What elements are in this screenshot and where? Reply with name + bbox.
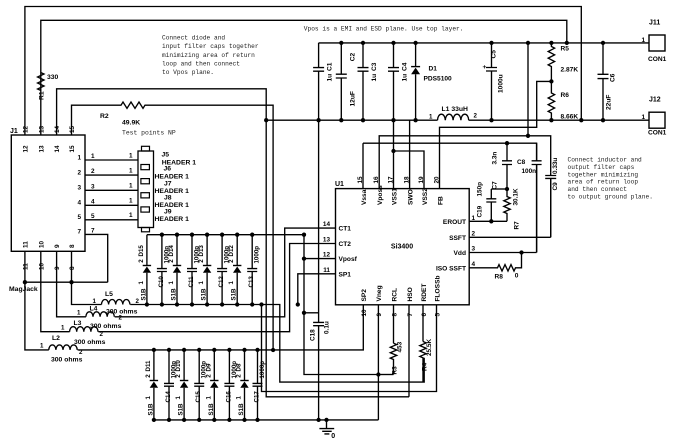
svg-text:CT1: CT1 <box>339 226 352 233</box>
svg-text:input filter caps together: input filter caps together <box>162 43 259 50</box>
wire Vssa riser <box>362 143 364 188</box>
svg-text:10: 10 <box>361 309 368 317</box>
svg-text:1: 1 <box>236 396 243 400</box>
capacitor C9 0.33u <box>545 173 556 237</box>
svg-text:1: 1 <box>175 396 182 400</box>
svg-text:Vposs: Vposs <box>377 185 384 205</box>
svg-text:HEADER 1: HEADER 1 <box>155 216 190 223</box>
capacitor C16 1000p <box>224 350 234 420</box>
svg-text:L4: L4 <box>90 305 98 312</box>
svg-text:1: 1 <box>145 396 152 400</box>
svg-text:J9: J9 <box>164 209 172 216</box>
resistor R5 2.87K <box>548 43 554 82</box>
svg-text:15: 15 <box>69 145 76 153</box>
svg-text:VSS2: VSS2 <box>422 188 429 205</box>
svg-text:7: 7 <box>407 313 414 317</box>
node junction at (266.2,120.2) <box>264 118 268 122</box>
svg-text:Vposf: Vposf <box>339 256 358 263</box>
wire J1 pin 5 to header J9 <box>85 219 138 221</box>
svg-text:FLOSSb: FLOSSb <box>434 275 441 301</box>
wire feedback FB <box>440 81 552 188</box>
svg-text:C18: C18 <box>310 329 317 341</box>
svg-text:+: + <box>483 64 487 71</box>
node junction at (304,234.7) <box>302 233 306 237</box>
svg-text:1: 1 <box>129 212 133 219</box>
ground symbol <box>319 420 334 434</box>
wire J1 pin14 to HSO net <box>57 89 409 397</box>
svg-text:12uF: 12uF <box>349 91 356 106</box>
header strip J5-J9 housing <box>138 151 154 228</box>
svg-text:300 ohms: 300 ohms <box>74 339 106 346</box>
inductor L1 33uH <box>438 114 469 120</box>
svg-text:D15: D15 <box>138 245 145 257</box>
svg-text:loop and then connect: loop and then connect <box>162 60 240 67</box>
wire SP1 <box>298 274 336 305</box>
svg-text:1000p: 1000p <box>163 246 170 264</box>
svg-text:S1B: S1B <box>140 288 147 301</box>
wire J1 pin 7 <box>85 234 108 282</box>
svg-text:11: 11 <box>323 267 330 274</box>
svg-text:3: 3 <box>77 185 81 192</box>
svg-text:1000p: 1000p <box>170 361 177 379</box>
resistor R7 30.1K <box>504 189 510 221</box>
node junction C7 tap <box>505 141 509 145</box>
IC U1 Si3400 <box>336 189 470 305</box>
svg-text:Vssa: Vssa <box>361 189 368 205</box>
svg-text:to Vpos plane.: to Vpos plane. <box>162 69 214 76</box>
wire J1 pin9 riser / L4 feed <box>57 251 86 316</box>
svg-text:100n: 100n <box>522 168 537 175</box>
svg-text:1: 1 <box>40 343 44 350</box>
svg-text:1000u: 1000u <box>498 74 505 93</box>
diode D13 S1B <box>206 235 208 305</box>
svg-text:J6: J6 <box>164 166 172 173</box>
svg-text:1: 1 <box>198 281 205 285</box>
diode D8 S1B <box>244 350 246 420</box>
wire J1 pin8 riser / L5 feed <box>72 251 102 304</box>
svg-text:8: 8 <box>391 313 398 317</box>
svg-text:HSO: HSO <box>407 287 414 301</box>
wire J1 pin 2 to header J6 <box>85 174 138 176</box>
resistor R2 49.9K <box>119 102 147 108</box>
svg-text:Vpos is a EMI and ESD plane. U: Vpos is a EMI and ESD plane. Use top lay… <box>304 25 464 32</box>
svg-text:HEADER 1: HEADER 1 <box>155 202 190 209</box>
svg-text:1000p: 1000p <box>231 361 238 379</box>
svg-text:12: 12 <box>323 252 331 259</box>
svg-text:13: 13 <box>38 125 45 133</box>
capacitor C12 1000p <box>217 235 227 305</box>
svg-text:C3: C3 <box>371 62 378 71</box>
svg-text:1: 1 <box>138 281 145 285</box>
svg-text:MagJack: MagJack <box>9 286 38 293</box>
svg-text:C7: C7 <box>492 181 499 190</box>
svg-text:3: 3 <box>472 246 476 253</box>
svg-text:to output ground plane.: to output ground plane. <box>568 194 653 201</box>
svg-text:S1B: S1B <box>201 288 208 301</box>
wire R1 top to Vpos rail <box>41 20 567 67</box>
svg-text:6: 6 <box>421 313 428 317</box>
wire upper diode top rail <box>147 234 304 236</box>
wire upper diode rail to RDET net <box>130 305 424 383</box>
capacitor C6 22uF <box>598 43 609 120</box>
node junction at (273.1,350) <box>271 348 275 352</box>
svg-text:330: 330 <box>47 74 59 81</box>
svg-text:C5: C5 <box>490 50 497 59</box>
wire SWO riser <box>409 120 411 188</box>
svg-text:C1: C1 <box>327 62 334 71</box>
node junction at (566.8,42.9) <box>565 41 569 45</box>
svg-text:1: 1 <box>129 152 133 159</box>
svg-text:2: 2 <box>77 169 81 176</box>
node junction VSS strap <box>391 149 395 153</box>
svg-text:C9: C9 <box>552 182 559 191</box>
svg-text:PDS5100: PDS5100 <box>424 76 453 83</box>
svg-text:CON1: CON1 <box>648 56 667 63</box>
svg-text:1u: 1u <box>402 74 409 82</box>
svg-text:7: 7 <box>77 229 81 236</box>
svg-text:0: 0 <box>331 433 335 440</box>
resistor R8 0 <box>496 265 518 271</box>
wire Vposf net vertical <box>304 235 378 375</box>
svg-text:together minimizing: together minimizing <box>568 171 639 178</box>
svg-text:1: 1 <box>429 114 433 121</box>
wire J1 pin 4 to header J8 <box>85 204 138 206</box>
capacitor C15 1000p <box>194 350 204 420</box>
connector J1 (MagJack) <box>11 135 85 251</box>
svg-text:output filter caps: output filter caps <box>568 164 635 171</box>
wire R8 to Vdd <box>517 253 522 268</box>
svg-text:C8: C8 <box>517 159 526 166</box>
svg-text:9: 9 <box>54 244 61 248</box>
svg-text:R7: R7 <box>514 221 521 230</box>
svg-text:C11: C11 <box>188 276 195 288</box>
svg-text:22uF: 22uF <box>605 95 612 110</box>
svg-text:R8: R8 <box>495 274 504 281</box>
svg-text:L2: L2 <box>52 335 60 342</box>
svg-text:J7: J7 <box>164 180 172 187</box>
svg-text:1000p: 1000p <box>224 246 231 264</box>
wire Vpos rail <box>319 42 649 44</box>
svg-text:1: 1 <box>77 154 81 161</box>
capacitor C17 1000p <box>253 350 263 420</box>
svg-text:R5: R5 <box>561 46 570 53</box>
svg-text:2.87K: 2.87K <box>561 67 579 74</box>
svg-text:EROUT: EROUT <box>443 219 466 226</box>
capacitor C8 100n <box>532 143 542 252</box>
svg-text:25.5K: 25.5K <box>426 339 433 356</box>
resistor R1 330 <box>38 67 44 93</box>
svg-text:1: 1 <box>642 37 646 44</box>
node junction FLOSSb tap <box>259 302 263 306</box>
svg-text:HEADER 1: HEADER 1 <box>155 188 190 195</box>
svg-text:C12: C12 <box>218 276 225 288</box>
svg-text:L1 33uH: L1 33uH <box>442 106 469 113</box>
svg-text:5: 5 <box>434 313 441 317</box>
svg-text:30.1K: 30.1K <box>513 188 520 205</box>
wire HSO riser <box>408 305 410 397</box>
svg-text:300 ohms: 300 ohms <box>51 357 83 364</box>
resistor R6 8.66K <box>548 81 554 120</box>
svg-text:5: 5 <box>77 214 81 221</box>
capacitor C19 150p <box>491 188 507 190</box>
svg-text:D1: D1 <box>429 66 438 73</box>
wire FLOSSb net <box>262 305 437 392</box>
svg-text:C10: C10 <box>158 276 165 288</box>
node junction R5/R6 <box>549 79 553 83</box>
diode D11 S1B <box>153 350 155 420</box>
svg-text:Vdd: Vdd <box>454 250 466 257</box>
svg-text:CON1: CON1 <box>648 130 667 137</box>
capacitor C4 1u <box>388 43 399 120</box>
wire VSS strap pins 17-19 <box>394 151 425 189</box>
wire ground rail <box>154 419 379 421</box>
node MagJack junction <box>23 280 27 284</box>
capacitor C14 1000p <box>164 350 174 420</box>
svg-text:7: 7 <box>91 227 95 234</box>
svg-text:2: 2 <box>138 259 145 263</box>
node junction SP1 tap <box>296 302 300 306</box>
svg-text:CT2: CT2 <box>339 241 352 248</box>
svg-text:14: 14 <box>54 145 61 153</box>
svg-text:10: 10 <box>38 262 45 270</box>
svg-text:1u: 1u <box>371 74 378 82</box>
svg-text:C2: C2 <box>349 53 356 62</box>
svg-text:Vneg: Vneg <box>376 285 383 301</box>
svg-text:VSS1: VSS1 <box>391 188 398 205</box>
svg-text:HEADER 1: HEADER 1 <box>155 174 190 181</box>
svg-text:Connect inductor and: Connect inductor and <box>568 157 643 164</box>
diode D9 S1B <box>213 350 215 420</box>
wire ISOSSFT <box>469 267 495 269</box>
wire C1 column down <box>318 120 320 322</box>
svg-text:3: 3 <box>91 183 95 190</box>
svg-text:FB: FB <box>437 196 444 205</box>
wire J1 pin15 riser <box>72 105 120 135</box>
svg-text:49.9K: 49.9K <box>122 120 140 127</box>
svg-text:2: 2 <box>474 113 478 120</box>
wire Vneg to ground rail <box>377 305 379 420</box>
svg-text:L3: L3 <box>74 320 82 327</box>
svg-text:SP1: SP1 <box>339 271 352 278</box>
svg-text:R2: R2 <box>100 113 109 120</box>
svg-text:2: 2 <box>145 374 152 378</box>
svg-text:2: 2 <box>472 230 476 237</box>
svg-text:15: 15 <box>69 125 76 133</box>
svg-text:C6: C6 <box>610 73 617 82</box>
svg-text:L5: L5 <box>105 291 113 298</box>
wire J1 pin10 riser / L3 feed <box>41 251 70 331</box>
wire J1 pin 3 to header J7 <box>85 189 138 191</box>
wire R3 bottom to Vneg <box>378 374 393 376</box>
wire J1 pin13 riser (lower) <box>40 93 42 135</box>
svg-text:Test points NP: Test points NP <box>122 129 176 136</box>
inductor L3 300 ohms <box>70 327 98 332</box>
svg-text:1: 1 <box>168 281 175 285</box>
capacitor C2 12uF <box>336 43 347 120</box>
svg-text:1: 1 <box>77 310 81 317</box>
svg-text:12: 12 <box>23 125 30 133</box>
wire SSFT <box>469 178 551 237</box>
capacitor C7 3.3n <box>502 143 512 189</box>
svg-text:J8: J8 <box>164 195 172 202</box>
node junction C18 tap <box>302 311 306 315</box>
wire Vssa compensation rail <box>363 143 537 161</box>
svg-text:13: 13 <box>38 145 45 153</box>
svg-text:J12: J12 <box>649 97 661 104</box>
svg-text:1: 1 <box>642 114 646 121</box>
svg-text:R6: R6 <box>561 92 570 99</box>
svg-text:and then connect: and then connect <box>568 186 628 193</box>
svg-text:8: 8 <box>69 244 76 248</box>
svg-text:C19: C19 <box>477 205 484 217</box>
svg-text:1: 1 <box>91 153 95 160</box>
svg-text:D11: D11 <box>145 360 152 372</box>
resistor R4 25.5K <box>420 342 426 383</box>
capacitor C18 0.1u <box>304 312 319 314</box>
svg-text:S1B: S1B <box>147 403 154 416</box>
diode D12 S1B <box>236 235 238 305</box>
svg-text:14: 14 <box>323 221 331 228</box>
svg-text:11: 11 <box>23 263 30 270</box>
wire RCL riser <box>393 305 395 343</box>
svg-text:J11: J11 <box>649 20 660 27</box>
wire J1 pin12 to output rail <box>25 7 581 136</box>
wire Vpos rail dropper <box>527 43 529 136</box>
svg-text:12: 12 <box>23 145 30 153</box>
svg-text:4: 4 <box>472 261 476 268</box>
svg-text:1000p: 1000p <box>201 361 208 379</box>
svg-text:8: 8 <box>69 266 76 270</box>
svg-text:C17: C17 <box>254 391 261 403</box>
capacitor C10 1000p <box>157 235 167 305</box>
capacitor C3 1u <box>358 43 369 120</box>
svg-text:C13: C13 <box>248 276 255 288</box>
capacitor C13 1000p <box>247 235 257 305</box>
wire output rail right of L1 <box>469 119 649 121</box>
svg-text:1: 1 <box>129 198 133 205</box>
svg-text:8.66K: 8.66K <box>561 114 579 121</box>
wire EROUT <box>469 220 507 222</box>
wire output rail left of L1 <box>266 119 437 121</box>
wire VSS1 riser <box>393 120 395 188</box>
node junction R7 top <box>505 187 509 191</box>
svg-text:Si3400: Si3400 <box>391 244 413 251</box>
svg-text:0.33u: 0.33u <box>552 158 559 174</box>
wire L3 to CT2 <box>98 244 335 332</box>
svg-text:10: 10 <box>38 240 45 248</box>
svg-text:S1B: S1B <box>208 403 215 416</box>
svg-text:J5: J5 <box>162 151 170 158</box>
node junction Vneg <box>376 372 380 376</box>
svg-text:150p: 150p <box>477 182 484 197</box>
svg-text:R1: R1 <box>39 91 46 100</box>
svg-text:1000p: 1000p <box>254 246 261 264</box>
svg-text:S1B: S1B <box>238 403 245 416</box>
svg-text:0.1u: 0.1u <box>324 321 331 334</box>
svg-text:4: 4 <box>91 198 95 205</box>
wire J12 stub <box>648 119 650 121</box>
svg-text:9: 9 <box>54 266 61 270</box>
svg-text:C16: C16 <box>225 391 232 403</box>
diode D14 S1B <box>176 235 178 305</box>
svg-text:9: 9 <box>376 313 383 317</box>
svg-text:S1B: S1B <box>178 403 185 416</box>
wire Vdd <box>469 165 536 253</box>
connector J11 CON1 <box>649 35 665 51</box>
svg-text:R4: R4 <box>422 362 429 371</box>
svg-text:R3: R3 <box>392 366 399 375</box>
inductor L4 300 ohms <box>86 312 114 317</box>
resistor R3 453 <box>390 343 396 374</box>
svg-text:area of return loop: area of return loop <box>568 179 639 186</box>
svg-text:11: 11 <box>23 241 30 248</box>
svg-text:SP2: SP2 <box>361 289 368 302</box>
svg-text:1u: 1u <box>327 74 334 82</box>
svg-text:300 ohms: 300 ohms <box>90 323 122 330</box>
wire pin11 to pin8/pin7 tie <box>25 281 108 283</box>
wire Vposs to Vpos and C9 <box>379 136 551 189</box>
svg-text:S1B: S1B <box>231 288 238 301</box>
svg-text:5: 5 <box>91 213 95 220</box>
wire J1 pin11 riser and L2 feed / lower rail <box>25 251 49 350</box>
node junction C19 bottom <box>489 219 493 223</box>
svg-text:0: 0 <box>515 273 519 280</box>
svg-text:453: 453 <box>397 341 404 352</box>
svg-text:ISO SSFT: ISO SSFT <box>436 265 466 272</box>
capacitor C1 1u <box>313 43 324 120</box>
capacitor C11 1000p <box>187 235 197 305</box>
wire lower rail L2 to SP2 <box>78 305 364 350</box>
svg-text:minimizing area of return: minimizing area of return <box>162 52 255 59</box>
svg-text:SSFT: SSFT <box>449 235 466 242</box>
svg-text:1: 1 <box>129 167 133 174</box>
node junction at (581.3,120.2) <box>579 118 583 122</box>
connector J12 CON1 <box>649 112 665 128</box>
svg-text:300 ohms: 300 ohms <box>106 309 138 316</box>
svg-text:3.3n: 3.3n <box>492 152 499 165</box>
svg-text:Connect diode and: Connect diode and <box>162 35 225 42</box>
wire L4 to CT1 <box>115 228 336 317</box>
svg-text:C14: C14 <box>165 391 172 403</box>
svg-text:J1: J1 <box>10 128 18 135</box>
wire RDET riser <box>422 305 424 342</box>
diode D10 S1B <box>183 350 185 420</box>
svg-text:14: 14 <box>54 125 61 133</box>
svg-text:RCL: RCL <box>391 288 398 302</box>
diode D1 PDS5100 <box>415 43 417 120</box>
svg-text:1: 1 <box>93 298 97 305</box>
svg-text:S1B: S1B <box>171 288 178 301</box>
wire R2 to lower rail <box>147 105 273 350</box>
diode D15 S1B <box>146 235 148 305</box>
svg-text:1: 1 <box>61 325 65 332</box>
svg-text:U1: U1 <box>335 181 344 188</box>
node junction Vdd/R8 <box>519 250 523 254</box>
capacitor C5 1000u <box>486 43 497 120</box>
svg-text:1: 1 <box>129 183 133 190</box>
svg-text:4: 4 <box>77 200 81 207</box>
svg-text:1: 1 <box>205 396 212 400</box>
svg-text:C15: C15 <box>195 391 202 403</box>
svg-text:1000p: 1000p <box>259 361 266 379</box>
wire J1 pin 1 to header J5 <box>85 159 138 161</box>
svg-text:1: 1 <box>228 281 235 285</box>
svg-text:C4: C4 <box>402 62 409 71</box>
svg-text:RDET: RDET <box>421 284 428 302</box>
inductor L2 300 ohms <box>49 345 77 350</box>
inductor L5 300 ohms <box>102 300 130 305</box>
svg-text:2: 2 <box>91 168 95 175</box>
